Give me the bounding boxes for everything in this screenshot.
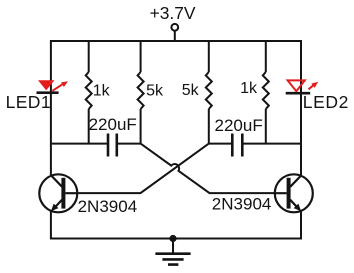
svg-text:2N3904: 2N3904: [78, 197, 138, 216]
svg-text:220uF: 220uF: [215, 116, 263, 135]
svg-text:1k: 1k: [93, 83, 111, 100]
svg-text:2N3904: 2N3904: [212, 195, 272, 214]
svg-text:5k: 5k: [146, 82, 164, 99]
svg-text:5k: 5k: [182, 82, 200, 99]
svg-text:220uF: 220uF: [89, 115, 137, 134]
svg-text:LED2: LED2: [303, 92, 349, 112]
svg-text:1k: 1k: [240, 80, 258, 97]
svg-text:+3.7V: +3.7V: [150, 3, 196, 23]
svg-text:LED1: LED1: [6, 92, 51, 112]
